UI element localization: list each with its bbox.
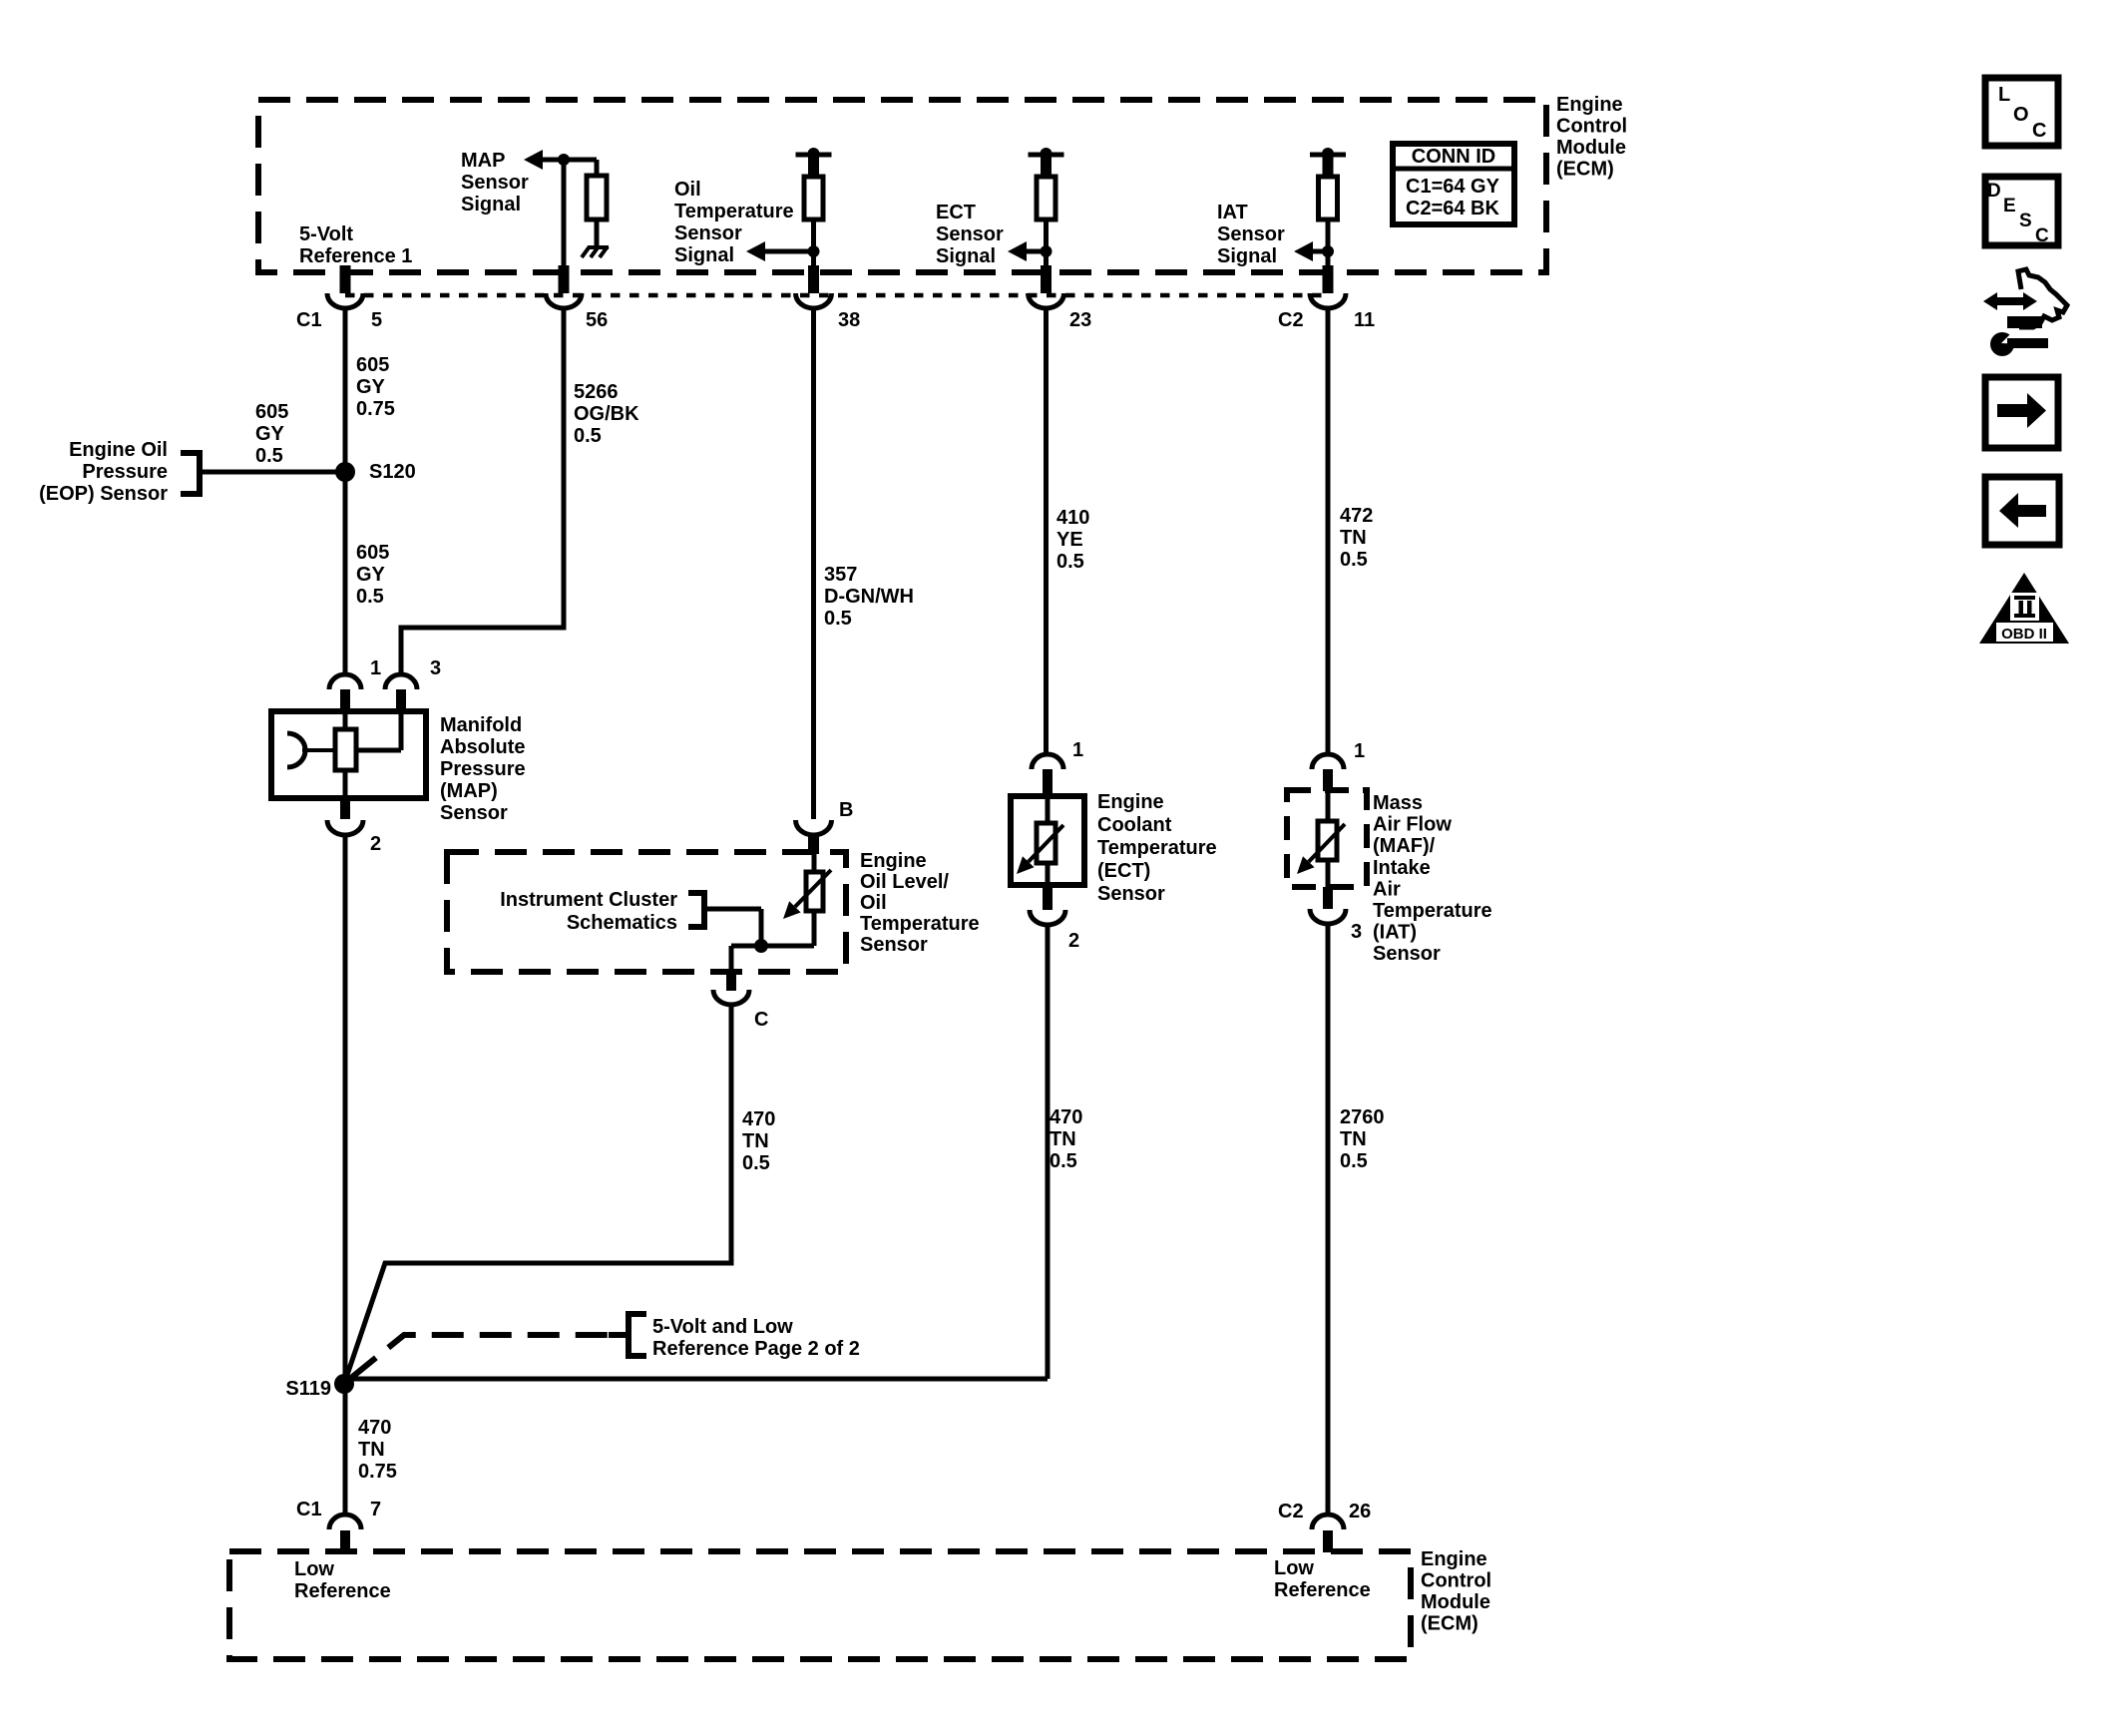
svg-text:Engine: Engine [1421,1548,1487,1570]
svg-text:1: 1 [1354,740,1365,762]
svg-text:C2: C2 [1278,1501,1304,1522]
svg-text:Engine: Engine [1556,94,1623,116]
svg-text:(ECM): (ECM) [1421,1613,1478,1635]
svg-text:11: 11 [1354,309,1375,331]
svg-text:0.5: 0.5 [356,586,384,608]
svg-text:1: 1 [1072,739,1083,761]
svg-text:Sensor: Sensor [860,934,928,956]
svg-text:GY: GY [356,564,386,586]
svg-text:23: 23 [1069,309,1091,331]
svg-text:0.5: 0.5 [574,425,602,447]
svg-text:C2=64 BK: C2=64 BK [1406,198,1499,219]
svg-text:0.75: 0.75 [356,398,395,420]
svg-text:E: E [2003,196,2016,217]
svg-text:(ECM): (ECM) [1556,159,1614,181]
svg-text:Sensor: Sensor [461,172,529,194]
svg-text:Engine: Engine [1097,791,1164,813]
svg-text:Module: Module [1421,1591,1490,1613]
svg-text:1: 1 [370,657,381,679]
svg-text:GY: GY [255,423,285,445]
svg-text:605: 605 [356,542,389,564]
svg-text:(EOP) Sensor: (EOP) Sensor [39,483,168,505]
svg-text:O: O [2013,104,2029,126]
svg-text:C1=64 GY: C1=64 GY [1406,176,1500,198]
svg-text:605: 605 [255,401,288,423]
svg-text:Oil: Oil [860,892,887,914]
svg-text:(MAF)/: (MAF)/ [1373,835,1436,857]
svg-text:Low: Low [294,1558,334,1580]
svg-text:C1: C1 [296,309,322,331]
svg-text:Temperature: Temperature [1097,837,1217,859]
svg-text:L: L [1998,84,2010,106]
svg-text:Sensor: Sensor [1217,223,1285,245]
svg-text:Reference: Reference [294,1580,391,1602]
svg-text:S120: S120 [369,461,416,483]
svg-text:2: 2 [1068,930,1079,952]
svg-text:Module: Module [1556,137,1626,159]
svg-text:MAP: MAP [461,150,505,172]
svg-text:Oil Level/: Oil Level/ [860,871,949,893]
svg-text:5-Volt: 5-Volt [299,223,353,245]
svg-text:26: 26 [1349,1501,1371,1522]
svg-text:OG/BK: OG/BK [574,403,639,425]
svg-text:2760: 2760 [1340,1106,1385,1128]
svg-text:Temperature: Temperature [860,913,980,935]
svg-text:Reference 1: Reference 1 [299,245,412,267]
svg-text:0.75: 0.75 [358,1461,397,1483]
svg-text:5: 5 [371,309,382,331]
svg-text:Schematics: Schematics [567,912,677,934]
svg-text:D-GN/WH: D-GN/WH [824,586,914,608]
svg-text:C: C [2032,120,2046,142]
svg-text:Sensor: Sensor [674,222,742,244]
svg-text:0.5: 0.5 [742,1152,770,1174]
svg-text:472: 472 [1340,505,1373,527]
svg-text:TN: TN [358,1439,385,1461]
svg-text:Temperature: Temperature [1373,900,1492,922]
svg-text:TN: TN [1340,1128,1367,1150]
svg-text:TN: TN [742,1130,769,1152]
svg-text:Reference Page 2 of 2: Reference Page 2 of 2 [652,1338,860,1360]
svg-text:C: C [754,1009,768,1031]
svg-text:S119: S119 [285,1378,331,1400]
svg-text:5266: 5266 [574,381,619,403]
svg-text:5-Volt and Low: 5-Volt and Low [652,1316,793,1338]
svg-text:(MAP): (MAP) [440,780,498,802]
svg-text:Mass: Mass [1373,792,1423,814]
svg-text:Engine: Engine [860,850,927,872]
svg-text:Temperature: Temperature [674,201,794,222]
svg-text:Signal: Signal [1217,245,1277,267]
svg-text:0.5: 0.5 [824,608,852,630]
svg-text:OBD II: OBD II [2001,626,2047,643]
svg-text:Sensor: Sensor [936,223,1004,245]
svg-text:Low: Low [1274,1557,1314,1579]
svg-text:Control: Control [1421,1570,1491,1592]
svg-text:470: 470 [742,1108,775,1130]
svg-text:0.5: 0.5 [255,445,283,467]
svg-text:470: 470 [1050,1106,1082,1128]
svg-text:ECT: ECT [936,202,976,223]
svg-text:Instrument Cluster: Instrument Cluster [500,889,677,911]
svg-text:D: D [1987,181,2001,202]
svg-text:Air Flow: Air Flow [1373,814,1452,836]
svg-text:Sensor: Sensor [1373,943,1441,965]
svg-text:Oil: Oil [674,179,701,201]
svg-text:Manifold: Manifold [440,714,522,736]
svg-text:Coolant: Coolant [1097,814,1172,836]
svg-text:0.5: 0.5 [1340,1150,1368,1172]
svg-text:Absolute: Absolute [440,736,526,758]
svg-text:0.5: 0.5 [1050,1150,1077,1172]
svg-text:Reference: Reference [1274,1579,1371,1601]
svg-text:C2: C2 [1278,309,1304,331]
svg-text:410: 410 [1056,507,1089,529]
svg-text:2: 2 [370,833,381,855]
svg-text:TN: TN [1050,1128,1076,1150]
svg-text:Control: Control [1556,116,1627,138]
svg-text:Signal: Signal [461,194,521,216]
svg-text:38: 38 [838,309,860,331]
svg-text:Engine Oil: Engine Oil [69,439,168,461]
svg-text:357: 357 [824,564,857,586]
svg-text:Sensor: Sensor [440,802,508,824]
svg-text:Signal: Signal [674,244,734,266]
svg-text:0.5: 0.5 [1056,551,1084,573]
svg-text:Signal: Signal [936,245,996,267]
svg-text:C: C [2035,225,2049,246]
svg-text:CONN ID: CONN ID [1412,146,1495,168]
svg-text:Pressure: Pressure [82,461,168,483]
svg-text:(ECT): (ECT) [1097,860,1150,882]
svg-text:0.5: 0.5 [1340,549,1368,571]
svg-text:Air: Air [1373,878,1401,900]
svg-text:56: 56 [586,309,608,331]
svg-text:3: 3 [430,657,441,679]
svg-text:C1: C1 [296,1499,322,1520]
svg-text:Pressure: Pressure [440,758,526,780]
svg-text:Intake: Intake [1373,857,1431,879]
svg-text:IAT: IAT [1217,202,1248,223]
svg-text:605: 605 [356,354,389,376]
svg-text:TN: TN [1340,527,1367,549]
svg-text:B: B [839,799,853,821]
svg-text:470: 470 [358,1417,391,1439]
svg-text:(IAT): (IAT) [1373,922,1417,944]
svg-text:3: 3 [1351,921,1362,943]
svg-text:YE: YE [1056,529,1083,551]
svg-text:GY: GY [356,376,386,398]
svg-text:Sensor: Sensor [1097,883,1165,905]
svg-text:7: 7 [370,1499,381,1520]
svg-text:S: S [2019,211,2032,231]
